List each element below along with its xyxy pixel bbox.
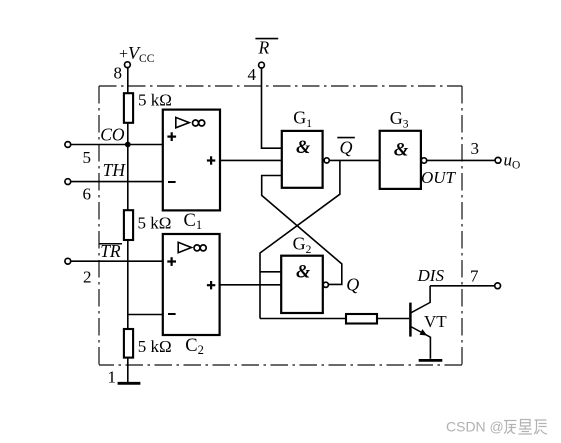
wire TH (pin6 to C1 -) <box>71 181 163 183</box>
comparator C2 minus input mark <box>168 313 176 315</box>
NAND gate G3 <box>380 131 421 189</box>
watermark CJK glyphs drawn as strokes <box>504 420 547 435</box>
svg-text:5 kΩ: 5 kΩ <box>138 213 172 232</box>
pin 4 terminal <box>259 62 265 68</box>
wire R2 to R3 <box>127 240 129 329</box>
svg-text:4: 4 <box>248 65 257 84</box>
G1 output bubble <box>324 158 329 163</box>
svg-text:5 kΩ: 5 kΩ <box>138 90 172 109</box>
pin 3 terminal <box>495 157 501 163</box>
svg-text:5: 5 <box>83 148 92 167</box>
wire R3 to ground pin 1 <box>127 358 129 383</box>
comparator C1 triangle symbol <box>176 117 189 127</box>
wire R1 to R2 through CO node <box>127 123 129 210</box>
svg-text:VT: VT <box>424 312 447 331</box>
pin 8 terminal <box>125 62 131 68</box>
wire C1 output to G1 <box>220 159 282 161</box>
svg-text:CSDN @: CSDN @ <box>446 419 504 435</box>
resistor R3 5k <box>124 329 133 358</box>
wire TR (pin2 to C2 +) <box>71 260 163 262</box>
svg-text:6: 6 <box>83 185 92 204</box>
svg-text:5 kΩ: 5 kΩ <box>138 337 172 356</box>
ground (VT emitter) <box>419 359 443 362</box>
pin 2 terminal <box>65 258 71 264</box>
svg-text:7: 7 <box>470 267 479 286</box>
G2 output bubble <box>323 282 328 287</box>
wire base resistor to VT base <box>377 318 409 320</box>
svg-text:2: 2 <box>83 268 92 287</box>
svg-text:&: & <box>296 138 311 158</box>
svg-text:TH: TH <box>103 160 127 180</box>
svg-text:&: & <box>296 262 311 282</box>
comparator C2 infinity symbol <box>194 245 206 251</box>
wire Qbar node to base resistor <box>260 318 346 320</box>
wire G1 output to G3 <box>329 159 379 161</box>
wire C2 output to G2 <box>220 284 282 286</box>
NAND gate G2 <box>281 256 323 313</box>
transistor VT <box>410 286 430 359</box>
wire feedback Qbar down to cross <box>260 160 340 318</box>
comparator C1 output plus mark <box>207 156 215 164</box>
ground (pin 1 bar) <box>118 382 141 385</box>
NAND gate G1 <box>282 131 323 188</box>
wire pin8 to R1 <box>127 68 129 94</box>
pin 5 terminal <box>65 142 71 148</box>
svg-text:&: & <box>394 140 409 161</box>
svg-text:OUT: OUT <box>421 168 457 187</box>
IC package outline (dash-dot border) <box>99 86 462 365</box>
wire divider tap to C2 - input <box>128 314 163 316</box>
pin 7 terminal <box>495 283 501 289</box>
resistor R1 5k <box>124 93 133 123</box>
G3 output bubble <box>421 158 426 163</box>
pin 6 terminal <box>65 179 71 185</box>
svg-text:8: 8 <box>114 64 123 83</box>
comparator C2 <box>163 234 220 335</box>
wire G3 output to pin 3 <box>427 159 496 161</box>
svg-text:CO: CO <box>100 124 125 144</box>
wire G1 third input from Q feedback <box>262 176 342 285</box>
wire branch to G2 input 1 <box>260 271 281 273</box>
comparator C1 infinity symbol <box>193 120 205 126</box>
svg-text:R: R <box>258 38 270 58</box>
comparator C1 plus input mark <box>167 132 176 141</box>
comparator C2 plus input mark <box>167 257 176 266</box>
svg-text:1: 1 <box>108 368 117 387</box>
resistor R2 5k <box>124 210 133 240</box>
node CO junction dot <box>125 142 131 148</box>
wire CO (pin5 to C1 +) <box>71 144 163 146</box>
svg-text:Q: Q <box>340 138 353 158</box>
base resistor <box>346 314 377 324</box>
svg-text:3: 3 <box>471 139 480 158</box>
comparator C2 output plus mark <box>207 281 215 289</box>
comparator C1 minus input mark <box>168 181 176 183</box>
wire pin4 to G1 input <box>262 68 282 148</box>
svg-text:DIS: DIS <box>417 266 445 285</box>
svg-text:Q: Q <box>346 275 359 295</box>
comparator C2 triangle symbol <box>178 242 191 252</box>
comparator C1 <box>163 110 220 211</box>
wire VT collector to pin 7 <box>430 285 495 287</box>
